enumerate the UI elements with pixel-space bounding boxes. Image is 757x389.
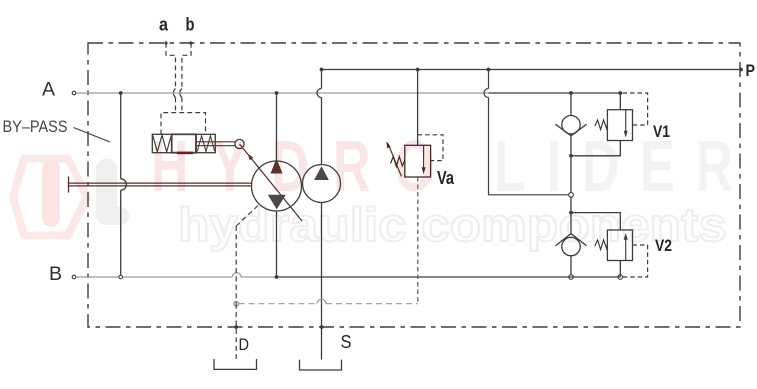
relief valve V1 body [607, 110, 632, 141]
bypass junction dot at A [119, 91, 123, 95]
enclosure dashed border [88, 43, 740, 327]
left spring zigzag [153, 135, 171, 152]
pilot header dashed frame [161, 113, 206, 135]
watermark text LIDER [494, 127, 733, 207]
Va drain dashed [417, 177, 419, 304]
port P dot [739, 68, 743, 72]
svg-text:Va: Va [437, 168, 455, 188]
bypass jump arc over shaft [121, 179, 127, 190]
watermark text HYDRO [151, 127, 435, 207]
junction dot at P [487, 68, 491, 72]
drain header dashed (gray) [239, 303, 418, 305]
BY-PASS pointer line [74, 128, 111, 143]
svg-text:D: D [239, 335, 250, 354]
node b tick [189, 41, 192, 44]
junction dot V1-A [618, 91, 622, 95]
watermark gray mark [96, 159, 129, 226]
control valve centre box [172, 134, 196, 152]
wire line B gray segment (with jump over drain at x=236.6) [76, 276, 277, 278]
wire pump to line A [276, 93, 278, 161]
wire line B dark segment [277, 276, 621, 278]
suction wire S [321, 203, 323, 360]
junction dot CV1/V1 return [569, 154, 573, 158]
junction dot CV1-A [569, 91, 573, 95]
V2 pilot dashed [623, 245, 648, 277]
V1 spring [595, 120, 608, 130]
pilot line a jump over line A [173, 89, 175, 98]
svg-text:A: A [42, 78, 55, 100]
port A end dot [72, 91, 76, 95]
V1 return wire [571, 141, 620, 156]
Va pilot dashed [418, 135, 443, 161]
drain corner open circle [234, 301, 239, 306]
valve Va body [405, 145, 431, 177]
junction dot V2 branch [569, 211, 573, 215]
Va spring [391, 157, 405, 167]
svg-text:BY–PASS: BY–PASS [3, 118, 68, 136]
tank symbol S [300, 360, 342, 370]
check valve CV1 ball [562, 116, 580, 134]
open circle V2-B [618, 275, 623, 280]
check valve CV2 ball [562, 237, 580, 255]
relief valve V2 feed wire [571, 213, 620, 230]
svg-text:b: b [186, 15, 195, 35]
open circle CV2-B [569, 275, 574, 280]
V2 internal passage arrow [625, 236, 627, 261]
charge pump triangle [315, 167, 328, 179]
jump arc over line A [484, 89, 489, 98]
junction dot S at border [320, 325, 324, 329]
charge line jump over line A [317, 89, 322, 98]
check valve CV2 seat [556, 234, 587, 246]
charge pump circle [303, 165, 341, 203]
main pump circle [252, 161, 302, 211]
V1 pilot dashed [623, 93, 648, 125]
svg-text:a: a [159, 15, 169, 35]
svg-text:V1: V1 [653, 122, 670, 141]
drain jump arc over S line [317, 299, 326, 304]
CV2 to line B wire [570, 256, 572, 275]
case drain vertical dashed [235, 226, 237, 304]
right spring zigzag [197, 136, 214, 152]
node a tick [164, 41, 167, 44]
wire charge pump to line P [321, 70, 323, 165]
watermark hexagon logo [13, 159, 87, 236]
V1 internal passage arrow [625, 110, 627, 135]
CV1 to mid wire [570, 136, 572, 234]
pilot line a [166, 43, 176, 113]
bypass wire A to B (with jump over shaft) [120, 93, 122, 277]
svg-text:P: P [746, 61, 756, 80]
main pump upper triangle [271, 160, 282, 173]
drive shaft [69, 177, 252, 193]
Va adjust arrow [388, 144, 402, 177]
relief valve V1 feed wire [619, 93, 621, 110]
control valve left spring box [152, 134, 171, 152]
case drain diagonal dashed [236, 206, 258, 227]
wire line A gray segment [76, 92, 489, 94]
wire line A dark segment [489, 92, 621, 94]
drain port D dashed [235, 304, 237, 359]
junction dot Va-P [416, 68, 420, 72]
line B jump arc over drain line [232, 273, 241, 277]
displacement arrowhead [249, 155, 253, 160]
V2 return wire [619, 261, 621, 278]
wire pump to line B [276, 211, 278, 277]
wire line P [322, 69, 742, 71]
main pump lower triangle [269, 195, 285, 208]
tank symbol D [214, 359, 257, 369]
Va internal passage arrow [423, 146, 425, 172]
relief valve V2 body [607, 230, 632, 261]
V2 spring [595, 240, 608, 250]
open circle at shuttle mid node [569, 193, 574, 198]
svg-text:V2: V2 [655, 236, 672, 255]
pilot line b [182, 43, 191, 113]
bypass junction dot at B [119, 275, 123, 279]
wire P to shuttle mid (x=488.5) [489, 70, 570, 195]
junction dot pump-A [275, 91, 279, 95]
check valve CV1 wire from line A [570, 93, 572, 116]
check valve CV1 seat [556, 124, 587, 136]
junction dot P start [320, 68, 324, 72]
port B end dot [72, 275, 76, 279]
svg-text:S: S [341, 332, 352, 352]
pilot line b jump over line A [180, 89, 182, 98]
control valve right spring box [196, 134, 215, 152]
roller [235, 139, 244, 148]
junction dot pump-B [275, 275, 279, 279]
wire P to Va [417, 70, 419, 146]
svg-text:hydraulic components: hydraulic components [178, 198, 727, 251]
junction dot D at border [234, 325, 238, 329]
actuator rod [196, 142, 235, 146]
svg-text:B: B [49, 263, 62, 285]
displacement arrow diagonal [240, 144, 303, 221]
